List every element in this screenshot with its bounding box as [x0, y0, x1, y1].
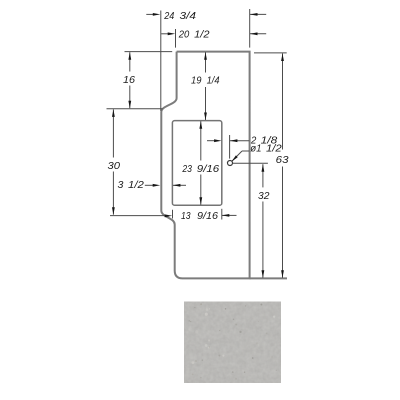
svg-text:ø1: ø1: [250, 144, 261, 155]
svg-text:19: 19: [191, 76, 202, 87]
svg-text:20: 20: [178, 29, 190, 40]
svg-text:63: 63: [276, 155, 289, 166]
svg-text:1/2: 1/2: [266, 144, 282, 155]
svg-text:3: 3: [118, 180, 124, 191]
arrowheads: [112, 13, 284, 278]
part outline: [161, 52, 249, 279]
hole: [228, 161, 233, 166]
material swatch: [184, 302, 281, 384]
dimension texts: [108, 11, 289, 222]
svg-text:30: 30: [108, 161, 121, 172]
svg-text:16: 16: [123, 75, 135, 86]
part bottom edge extension: [250, 277, 287, 279]
extension lines: [107, 9, 287, 220]
svg-text:23: 23: [182, 164, 193, 175]
svg-text:1/2: 1/2: [194, 29, 210, 40]
svg-text:24: 24: [163, 11, 174, 22]
cutout rectangle: [172, 121, 221, 206]
svg-text:3/4: 3/4: [180, 11, 197, 22]
svg-text:1/4: 1/4: [207, 76, 220, 87]
svg-text:9/16: 9/16: [197, 211, 218, 222]
svg-text:32: 32: [258, 191, 270, 202]
svg-text:9/16: 9/16: [197, 164, 220, 175]
svg-text:13: 13: [181, 211, 191, 222]
dimension lines: [113, 14, 282, 277]
svg-text:1/2: 1/2: [128, 180, 144, 191]
